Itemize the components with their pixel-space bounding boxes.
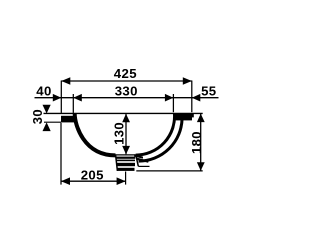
svg-text:330: 330 <box>115 84 138 99</box>
bowl outer tail at drain right <box>137 159 148 162</box>
svg-text:130: 130 <box>112 122 127 145</box>
drain center line below <box>125 172 127 185</box>
drain bottom band <box>117 168 134 171</box>
drain band 3 <box>117 163 135 166</box>
right rim bar <box>175 114 192 121</box>
drain left side wall <box>116 155 118 171</box>
dimension 30 arrows <box>43 105 51 131</box>
drain right side wall <box>136 155 139 166</box>
drain band 2 <box>116 160 135 162</box>
bowl right wall inner <box>136 113 175 155</box>
dimension line 180 <box>197 114 205 171</box>
bowl left wall <box>75 114 116 156</box>
svg-text:55: 55 <box>201 84 216 99</box>
extension line right inner <box>172 94 174 112</box>
dimension line 205 <box>61 177 126 185</box>
drain band 1 <box>116 157 135 159</box>
svg-text:425: 425 <box>114 66 137 81</box>
dimension line 330 / 40 / 55 <box>35 94 219 102</box>
extension line left outer <box>60 81 62 113</box>
bowl right wall outer <box>139 118 183 161</box>
svg-text:40: 40 <box>36 84 51 99</box>
dimension line 130 <box>122 114 130 155</box>
svg-text:205: 205 <box>81 167 104 182</box>
extension line rim bottom left <box>44 121 61 123</box>
drain top line <box>115 154 135 156</box>
basin rim top line <box>44 112 203 114</box>
extension line bottom left <box>60 123 62 185</box>
drain right step line <box>138 165 149 167</box>
extension line right outer <box>191 81 193 113</box>
drain right top wedge <box>134 154 143 158</box>
left rim bar <box>61 116 74 123</box>
dimension line 425 <box>61 77 192 85</box>
svg-text:30: 30 <box>30 109 45 124</box>
svg-text:180: 180 <box>189 131 204 154</box>
extension line left inner <box>72 94 74 113</box>
right rim lip <box>192 114 194 118</box>
drain bottom / extension line to 180 <box>136 170 202 172</box>
